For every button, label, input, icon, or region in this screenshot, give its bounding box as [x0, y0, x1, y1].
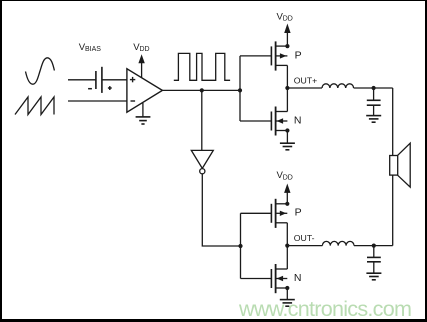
- wire: inductor to right rail: [354, 87, 393, 89]
- VDD arrow (lower half-bridge): [286, 192, 288, 203]
- wire: inverter output down and right to lower gate node: [202, 174, 240, 246]
- transistor P2 (lower P-channel MOSFET): [271, 199, 289, 228]
- ground (upper filter): [373, 105, 375, 115]
- label + (capacitor positive): [108, 86, 112, 90]
- svg-text:DD: DD: [283, 174, 293, 181]
- label VDD (lower half-bridge): [277, 170, 293, 181]
- label - (capacitor negative): [88, 88, 92, 90]
- inverter U2: [191, 150, 213, 168]
- wire: node A down to inverter: [201, 90, 203, 150]
- inductor L2: [322, 241, 354, 245]
- label VDD (upper half-bridge): [277, 11, 293, 22]
- svg-text:P: P: [295, 49, 302, 61]
- PWM square waveform: [174, 53, 230, 80]
- ground (lower filter): [373, 262, 375, 273]
- ground (below N1): [286, 131, 288, 144]
- capacitor C3 (lower filter): [373, 246, 375, 258]
- inductor L1: [322, 84, 354, 88]
- svg-text:N: N: [294, 272, 302, 284]
- node OUT+: [285, 86, 289, 90]
- capacitor C2 (upper filter): [373, 88, 375, 100]
- ground (below N2): [286, 288, 288, 300]
- wire: op-amp output: [162, 89, 240, 91]
- op-amp + input mark: [130, 77, 135, 82]
- node C (upper filter node): [372, 86, 376, 90]
- svg-text:N: N: [294, 114, 302, 126]
- wire: sine input to capacitor: [68, 79, 96, 81]
- wire: lower gate bus: [240, 213, 242, 278]
- capacitor C1 (DC blocking, polarized): [96, 67, 102, 93]
- node A (PWM node): [200, 88, 204, 92]
- op-amp VDD supply arrow: [141, 63, 143, 78]
- wire: P2 source to OUT-: [286, 223, 288, 246]
- transistor N2 (lower N-channel MOSFET): [271, 246, 289, 294]
- ground (op-amp): [142, 103, 144, 117]
- wire: inductor L2 to right rail: [354, 245, 393, 247]
- svg-text:www.cntronics.com: www.cntronics.com: [238, 296, 412, 321]
- wire: upper gate bus: [239, 56, 241, 121]
- svg-text:DD: DD: [140, 46, 150, 53]
- op-amp U1 (comparator): [127, 69, 162, 113]
- svg-text:P: P: [295, 207, 302, 219]
- wire: right rail (speaker feed): [392, 88, 394, 246]
- svg-text:OUT+: OUT+: [294, 75, 317, 85]
- node E (lower filter node): [372, 244, 376, 248]
- speaker LS1: [390, 143, 411, 187]
- node OUT-: [285, 244, 289, 248]
- sawtooth wave symbol: [15, 97, 54, 115]
- svg-text:DD: DD: [283, 15, 293, 22]
- wire: P1 source to OUT+: [286, 65, 288, 88]
- label VBIAS: [79, 42, 101, 53]
- svg-text:BIAS: BIAS: [85, 46, 101, 53]
- wire: OUT- to inductor: [287, 245, 322, 247]
- op-amp - input mark: [131, 100, 136, 102]
- node D (lower gate node): [238, 244, 242, 248]
- label VDD (op-amp supply): [133, 42, 149, 53]
- transistor P1 (upper P-channel MOSFET): [271, 41, 289, 70]
- node B (upper gate node): [238, 88, 242, 92]
- wire: capacitor to op-amp + input: [102, 79, 127, 81]
- transistor N1 (upper N-channel MOSFET): [271, 88, 289, 136]
- VDD arrow (upper half-bridge): [286, 33, 288, 46]
- sine wave input symbol: [26, 58, 55, 84]
- wire: sawtooth to op-amp - input: [68, 100, 127, 102]
- svg-text:OUT-: OUT-: [294, 233, 315, 243]
- wire: OUT+ to inductor: [287, 87, 322, 89]
